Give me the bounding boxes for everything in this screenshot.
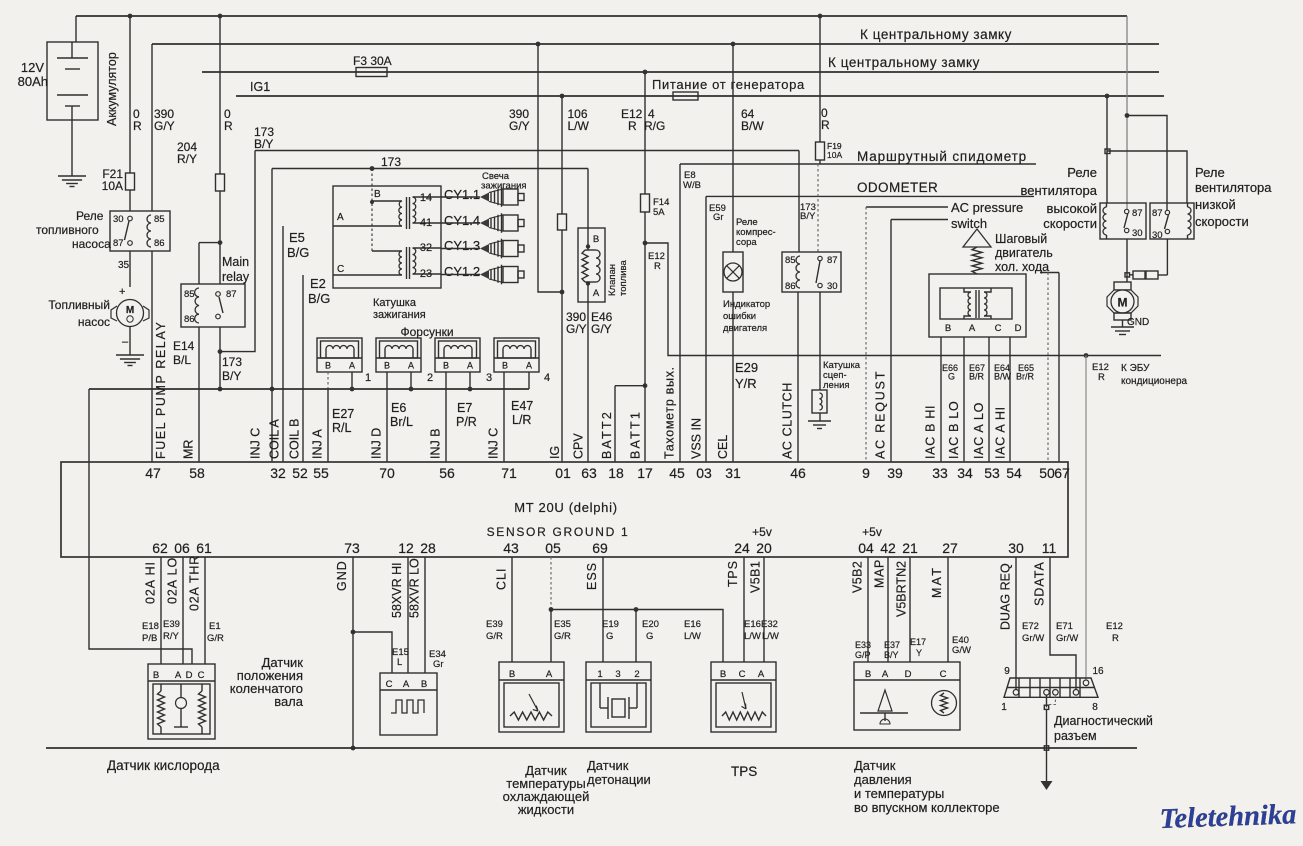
svg-text:A: A xyxy=(403,679,410,690)
svg-text:B/Y: B/Y xyxy=(884,650,899,660)
svg-text:73: 73 xyxy=(344,540,360,556)
svg-text:G/W: G/W xyxy=(952,645,971,656)
svg-text:CY1.2: CY1.2 xyxy=(444,264,480,279)
svg-text:27: 27 xyxy=(942,540,958,556)
svg-text:топлива: топлива xyxy=(618,260,629,296)
svg-text:R/G: R/G xyxy=(644,119,665,133)
svg-text:топливного: топливного xyxy=(36,223,99,237)
svg-text:B/W: B/W xyxy=(741,119,764,133)
svg-text:30: 30 xyxy=(827,281,838,292)
svg-text:MR: MR xyxy=(182,440,196,459)
svg-text:Диагностический: Диагностический xyxy=(1054,714,1153,728)
svg-text:E20: E20 xyxy=(642,619,659,630)
svg-text:E37: E37 xyxy=(884,640,900,650)
svg-text:B: B xyxy=(421,679,427,690)
svg-text:39: 39 xyxy=(887,465,903,481)
svg-text:MAT: MAT xyxy=(930,566,944,598)
svg-text:69: 69 xyxy=(592,540,608,556)
svg-text:ошибки: ошибки xyxy=(723,311,756,322)
svg-text:G/Y: G/Y xyxy=(591,322,612,336)
svg-text:V5BRTN2: V5BRTN2 xyxy=(895,561,909,617)
svg-text:G: G xyxy=(606,631,613,642)
svg-text:87: 87 xyxy=(1152,208,1163,219)
svg-text:55: 55 xyxy=(313,465,329,481)
svg-text:54: 54 xyxy=(1006,465,1022,481)
svg-text:46: 46 xyxy=(790,465,806,481)
svg-text:+5v: +5v xyxy=(752,525,772,539)
svg-text:A: A xyxy=(349,361,355,371)
svg-text:B: B xyxy=(502,361,508,371)
svg-text:B/L: B/L xyxy=(173,353,191,367)
svg-text:B/Y: B/Y xyxy=(800,211,816,222)
svg-text:A: A xyxy=(593,288,600,299)
svg-text:30: 30 xyxy=(1132,228,1143,239)
svg-text:вала: вала xyxy=(274,694,304,709)
svg-text:Датчик кислорода: Датчик кислорода xyxy=(107,758,220,773)
svg-text:G/R: G/R xyxy=(486,631,503,642)
svg-text:BATT1: BATT1 xyxy=(629,410,643,459)
svg-text:Датчик: Датчик xyxy=(854,758,896,773)
svg-text:47: 47 xyxy=(145,465,161,481)
svg-text:42: 42 xyxy=(880,540,896,556)
svg-text:A: A xyxy=(408,361,414,371)
svg-text:04: 04 xyxy=(858,540,874,556)
svg-text:R/Y: R/Y xyxy=(177,152,197,166)
svg-text:1: 1 xyxy=(1001,702,1007,713)
svg-text:32: 32 xyxy=(420,242,432,254)
svg-text:85: 85 xyxy=(184,289,195,300)
svg-text:давления: давления xyxy=(854,772,912,787)
svg-text:и температуры: и температуры xyxy=(854,786,944,801)
svg-text:Gr: Gr xyxy=(433,659,444,670)
svg-text:INJ A: INJ A xyxy=(311,428,325,459)
svg-text:E33: E33 xyxy=(855,640,871,650)
svg-text:12V: 12V xyxy=(21,60,44,75)
svg-text:E16: E16 xyxy=(744,619,761,630)
svg-text:C: C xyxy=(198,670,205,681)
svg-text:05: 05 xyxy=(545,540,561,556)
svg-text:87: 87 xyxy=(226,289,237,300)
svg-text:B: B xyxy=(443,361,449,371)
svg-text:02A LO: 02A LO xyxy=(166,557,180,604)
svg-text:58XVR HI: 58XVR HI xyxy=(390,562,404,618)
svg-text:30: 30 xyxy=(1008,540,1024,556)
svg-text:зажигания: зажигания xyxy=(481,181,527,192)
svg-text:B/Y: B/Y xyxy=(254,137,273,151)
svg-text:G/Y: G/Y xyxy=(154,119,175,133)
svg-text:Катушка: Катушка xyxy=(373,297,417,309)
svg-text:P/R: P/R xyxy=(456,415,477,429)
svg-text:Br/L: Br/L xyxy=(390,415,413,429)
svg-text:86: 86 xyxy=(154,238,165,249)
svg-text:E47: E47 xyxy=(511,399,533,413)
svg-text:R: R xyxy=(1098,372,1105,383)
svg-text:71: 71 xyxy=(501,465,517,481)
svg-text:C: C xyxy=(995,323,1002,334)
svg-text:16: 16 xyxy=(1092,666,1104,677)
svg-text:30: 30 xyxy=(113,214,124,225)
svg-text:двигателя: двигателя xyxy=(723,323,767,334)
svg-text:сора: сора xyxy=(736,237,757,248)
svg-text:2: 2 xyxy=(634,669,639,680)
svg-text:вентилятора: вентилятора xyxy=(1020,183,1097,198)
svg-text:R: R xyxy=(1112,633,1119,644)
svg-text:CY1.4: CY1.4 xyxy=(444,213,480,228)
svg-text:E1: E1 xyxy=(209,621,221,632)
svg-text:173: 173 xyxy=(222,355,242,369)
svg-text:relay: relay xyxy=(222,270,250,284)
svg-text:14: 14 xyxy=(420,192,432,204)
svg-text:IAC B LO: IAC B LO xyxy=(947,401,961,459)
svg-text:G/Y: G/Y xyxy=(509,119,530,133)
svg-text:Шаговый: Шаговый xyxy=(995,232,1047,246)
svg-text:насос: насос xyxy=(78,315,110,329)
svg-text:COIL A: COIL A xyxy=(268,419,282,459)
svg-text:87: 87 xyxy=(1132,208,1143,219)
svg-text:D: D xyxy=(905,669,912,680)
svg-text:53: 53 xyxy=(984,465,1000,481)
svg-text:62: 62 xyxy=(152,540,168,556)
svg-text:ESS: ESS xyxy=(585,562,599,590)
svg-text:Тахометр вых.: Тахометр вых. xyxy=(663,366,677,459)
svg-text:12: 12 xyxy=(398,540,414,556)
svg-text:Аккумулятор: Аккумулятор xyxy=(105,52,119,126)
svg-text:02A THR: 02A THR xyxy=(188,555,202,611)
svg-text:E17: E17 xyxy=(910,637,926,647)
svg-text:E29: E29 xyxy=(735,360,758,375)
svg-text:50: 50 xyxy=(1039,465,1055,481)
svg-text:B: B xyxy=(945,323,951,334)
svg-text:03: 03 xyxy=(696,465,712,481)
svg-text:AC REQUST: AC REQUST xyxy=(874,370,888,459)
svg-text:17: 17 xyxy=(637,465,653,481)
svg-text:E72: E72 xyxy=(1022,621,1039,632)
svg-text:2: 2 xyxy=(427,372,433,384)
svg-text:R: R xyxy=(654,261,661,272)
svg-text:V5B2: V5B2 xyxy=(851,561,865,593)
svg-text:IAC B HI: IAC B HI xyxy=(924,405,938,459)
svg-text:8: 8 xyxy=(1092,702,1098,713)
svg-text:B: B xyxy=(384,361,390,371)
svg-text:M: M xyxy=(126,305,134,316)
svg-text:IG1: IG1 xyxy=(250,80,270,94)
svg-text:MT 20U (delphi): MT 20U (delphi) xyxy=(514,500,617,515)
svg-text:56: 56 xyxy=(439,465,455,481)
svg-text:61: 61 xyxy=(196,540,212,556)
svg-text:Индикатор: Индикатор xyxy=(723,299,770,310)
svg-text:24: 24 xyxy=(734,540,750,556)
svg-text:MAP: MAP xyxy=(873,559,887,588)
svg-text:Teletehnika: Teletehnika xyxy=(1159,799,1297,835)
svg-text:G: G xyxy=(646,631,653,642)
svg-text:CEL: CEL xyxy=(716,435,730,459)
svg-text:INJ B: INJ B xyxy=(429,428,443,459)
svg-text:A: A xyxy=(337,212,344,223)
svg-text:жидкости: жидкости xyxy=(518,802,574,817)
svg-text:AC CLUTCH: AC CLUTCH xyxy=(781,382,795,459)
svg-text:кондиционера: кондиционера xyxy=(1121,376,1188,387)
svg-text:Br/R: Br/R xyxy=(1016,372,1035,382)
svg-text:высокой: высокой xyxy=(1047,201,1097,216)
svg-text:CY1.3: CY1.3 xyxy=(444,238,480,253)
svg-text:во впускном коллекторе: во впускном коллекторе xyxy=(854,800,1000,815)
svg-text:34: 34 xyxy=(957,465,973,481)
svg-text:R/L: R/L xyxy=(332,421,352,435)
svg-text:VSS IN: VSS IN xyxy=(690,418,704,459)
svg-text:70: 70 xyxy=(379,465,395,481)
svg-text:V5B1: V5B1 xyxy=(749,561,763,593)
svg-text:B/G: B/G xyxy=(308,291,330,306)
svg-text:58XVR LO: 58XVR LO xyxy=(408,558,422,618)
svg-text:G/P: G/P xyxy=(855,650,871,660)
svg-text:C: C xyxy=(337,264,344,275)
svg-text:AC pressure: AC pressure xyxy=(951,200,1023,215)
svg-text:низкой: низкой xyxy=(1195,197,1236,212)
svg-text:E35: E35 xyxy=(554,619,571,630)
svg-text:IAC A HI: IAC A HI xyxy=(994,406,1008,459)
svg-text:L/W: L/W xyxy=(762,631,779,642)
svg-text:BATT2: BATT2 xyxy=(600,410,614,459)
svg-text:IAC A LO: IAC A LO xyxy=(972,402,986,459)
svg-text:SENSOR GROUND 1: SENSOR GROUND 1 xyxy=(487,525,630,539)
svg-text:D: D xyxy=(186,670,193,681)
svg-text:Main: Main xyxy=(222,255,249,269)
svg-text:E6: E6 xyxy=(391,401,406,415)
svg-text:R: R xyxy=(628,119,637,133)
svg-text:C: C xyxy=(739,669,746,680)
svg-text:45: 45 xyxy=(669,465,685,481)
svg-text:Маршрутный спидометр: Маршрутный спидометр xyxy=(857,149,1027,164)
svg-text:A: A xyxy=(969,323,976,334)
svg-text:INJ C: INJ C xyxy=(249,428,263,459)
svg-text:ODOMETER: ODOMETER xyxy=(857,180,938,195)
svg-text:85: 85 xyxy=(785,255,796,266)
svg-text:+: + xyxy=(119,286,125,298)
svg-text:B/W: B/W xyxy=(994,372,1012,382)
svg-text:18: 18 xyxy=(608,465,624,481)
svg-text:разъем: разъем xyxy=(1054,729,1097,743)
svg-text:E39: E39 xyxy=(163,619,180,630)
svg-text:L/W: L/W xyxy=(684,631,701,642)
svg-text:E14: E14 xyxy=(173,339,195,353)
svg-text:Реле: Реле xyxy=(76,209,104,223)
svg-text:R: R xyxy=(224,119,233,133)
svg-text:Датчик: Датчик xyxy=(587,758,629,773)
svg-text:L: L xyxy=(397,657,402,668)
svg-text:R/Y: R/Y xyxy=(163,631,180,642)
svg-text:Y: Y xyxy=(916,648,922,658)
svg-text:52: 52 xyxy=(292,465,308,481)
svg-text:L/W: L/W xyxy=(744,631,761,642)
svg-text:41: 41 xyxy=(420,217,432,229)
svg-text:E39: E39 xyxy=(486,619,503,630)
svg-text:F3 30A: F3 30A xyxy=(353,54,392,68)
svg-text:SDATA: SDATA xyxy=(1033,561,1047,606)
svg-text:9: 9 xyxy=(862,465,870,481)
svg-text:INJ C: INJ C xyxy=(487,428,501,459)
svg-text:A: A xyxy=(758,669,765,680)
svg-text:3: 3 xyxy=(615,669,620,680)
svg-text:67: 67 xyxy=(1054,465,1070,481)
svg-text:P/B: P/B xyxy=(142,633,157,644)
svg-text:Gr: Gr xyxy=(713,212,724,223)
svg-text:1: 1 xyxy=(597,669,602,680)
svg-text:К центральному замку: К центральному замку xyxy=(860,27,1012,42)
svg-text:E5: E5 xyxy=(289,230,305,245)
svg-text:4: 4 xyxy=(544,372,550,384)
svg-text:Форсунки: Форсунки xyxy=(400,325,453,339)
svg-text:35: 35 xyxy=(118,260,130,271)
svg-text:C: C xyxy=(940,669,947,680)
svg-text:E19: E19 xyxy=(602,619,619,630)
svg-text:CLI: CLI xyxy=(495,568,509,590)
svg-text:GND: GND xyxy=(1127,317,1149,328)
svg-text:10A: 10A xyxy=(102,179,123,193)
svg-text:06: 06 xyxy=(174,540,190,556)
svg-text:23: 23 xyxy=(420,268,432,280)
svg-text:80Ah: 80Ah xyxy=(18,74,48,89)
svg-text:01: 01 xyxy=(555,465,571,481)
svg-text:FUEL PUMP RELAY: FUEL PUMP RELAY xyxy=(154,321,168,459)
svg-text:R: R xyxy=(821,118,830,132)
svg-text:A: A xyxy=(526,361,532,371)
svg-text:28: 28 xyxy=(420,540,436,556)
svg-text:G: G xyxy=(948,372,955,382)
svg-text:IG: IG xyxy=(548,446,562,459)
svg-text:21: 21 xyxy=(902,540,918,556)
svg-text:E7: E7 xyxy=(457,401,472,415)
svg-text:switch: switch xyxy=(951,216,987,231)
svg-text:30: 30 xyxy=(1152,230,1163,241)
svg-text:A: A xyxy=(467,361,473,371)
svg-text:86: 86 xyxy=(785,281,796,292)
svg-text:Клапан: Клапан xyxy=(607,264,618,296)
svg-text:CY1.1: CY1.1 xyxy=(444,187,480,202)
svg-text:+5v: +5v xyxy=(862,525,882,539)
svg-text:E2: E2 xyxy=(310,276,326,291)
svg-text:5A: 5A xyxy=(653,207,665,218)
svg-text:вентилятора: вентилятора xyxy=(1195,180,1272,195)
svg-text:1: 1 xyxy=(365,372,371,384)
svg-text:87: 87 xyxy=(827,255,838,266)
svg-text:CPV: CPV xyxy=(572,433,586,459)
svg-text:насоса: насоса xyxy=(72,237,111,251)
svg-text:E32: E32 xyxy=(761,619,778,630)
svg-text:Y/R: Y/R xyxy=(735,376,757,391)
svg-text:58: 58 xyxy=(189,465,205,481)
svg-text:скорости: скорости xyxy=(1195,214,1249,229)
svg-text:INJ D: INJ D xyxy=(370,428,384,459)
svg-text:Gr/W: Gr/W xyxy=(1022,633,1044,644)
svg-text:Топливный: Топливный xyxy=(48,298,110,312)
svg-text:B: B xyxy=(865,669,871,680)
svg-text:E71: E71 xyxy=(1056,621,1073,632)
svg-text:9: 9 xyxy=(1004,666,1010,677)
svg-text:G/Y: G/Y xyxy=(566,322,587,336)
svg-text:Питание от генератора: Питание от генератора xyxy=(652,77,805,92)
svg-text:Gr/W: Gr/W xyxy=(1056,633,1078,644)
svg-text:E18: E18 xyxy=(142,621,159,632)
svg-text:DUAG REQ: DUAG REQ xyxy=(999,563,1013,630)
svg-text:C: C xyxy=(386,679,393,690)
svg-text:B: B xyxy=(153,670,159,681)
svg-text:A: A xyxy=(882,669,889,680)
svg-text:3: 3 xyxy=(486,372,492,384)
svg-text:B/Y: B/Y xyxy=(222,369,241,383)
svg-text:20: 20 xyxy=(756,540,772,556)
svg-text:G/R: G/R xyxy=(207,633,224,644)
svg-text:11: 11 xyxy=(1042,540,1057,556)
svg-text:TPS: TPS xyxy=(726,560,740,587)
svg-text:E16: E16 xyxy=(684,619,701,630)
svg-text:W/B: W/B xyxy=(683,180,701,191)
svg-text:85: 85 xyxy=(154,214,165,225)
svg-text:M: M xyxy=(1118,296,1128,310)
svg-text:B/G: B/G xyxy=(287,245,309,260)
svg-text:двигатель: двигатель xyxy=(995,246,1053,260)
svg-text:–: – xyxy=(122,336,129,348)
svg-text:B: B xyxy=(509,669,515,680)
svg-text:COIL B: COIL B xyxy=(288,418,302,459)
svg-text:33: 33 xyxy=(932,465,948,481)
svg-text:G/R: G/R xyxy=(554,631,571,642)
svg-text:10A: 10A xyxy=(827,150,842,160)
svg-text:ления: ления xyxy=(823,380,850,391)
svg-text:L/R: L/R xyxy=(512,413,531,427)
svg-text:86: 86 xyxy=(184,314,195,325)
svg-text:43: 43 xyxy=(503,540,519,556)
svg-text:К ЭБУ: К ЭБУ xyxy=(1121,363,1150,374)
svg-text:87: 87 xyxy=(113,238,124,249)
svg-text:скорости: скорости xyxy=(1043,216,1097,231)
svg-text:31: 31 xyxy=(725,465,741,481)
svg-text:E12: E12 xyxy=(1106,621,1123,632)
svg-text:B: B xyxy=(374,189,381,200)
svg-text:R: R xyxy=(133,119,142,133)
svg-text:B: B xyxy=(325,361,331,371)
svg-text:D: D xyxy=(1015,323,1022,334)
svg-text:E27: E27 xyxy=(332,407,354,421)
svg-text:B/R: B/R xyxy=(969,372,985,382)
svg-text:B: B xyxy=(593,234,599,245)
svg-text:Реле: Реле xyxy=(1195,165,1225,180)
svg-text:63: 63 xyxy=(581,465,597,481)
svg-text:B: B xyxy=(720,669,726,680)
svg-text:детонации: детонации xyxy=(587,772,651,787)
svg-text:зажигания: зажигания xyxy=(373,309,426,321)
svg-text:32: 32 xyxy=(270,465,286,481)
svg-text:A: A xyxy=(546,669,553,680)
svg-text:A: A xyxy=(175,670,182,681)
svg-text:Реле: Реле xyxy=(1067,165,1097,180)
svg-text:173: 173 xyxy=(381,155,401,169)
svg-text:L/W: L/W xyxy=(568,119,590,133)
svg-text:02A HI: 02A HI xyxy=(144,561,158,604)
svg-text:К центральному замку: К центральному замку xyxy=(828,55,980,70)
svg-text:TPS: TPS xyxy=(731,764,757,779)
svg-text:GND: GND xyxy=(335,560,349,591)
